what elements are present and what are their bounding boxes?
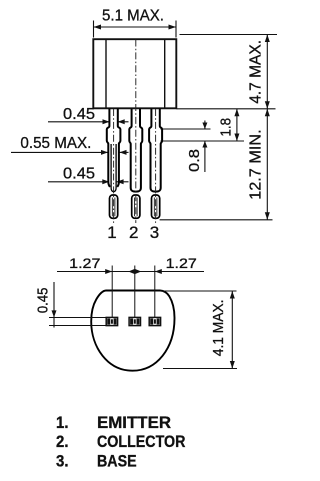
svg-text:0.8: 0.8 bbox=[186, 149, 203, 172]
svg-text:EMITTER: EMITTER bbox=[97, 414, 171, 432]
svg-text:BASE: BASE bbox=[97, 453, 137, 471]
svg-text:4.1 MAX.: 4.1 MAX. bbox=[210, 300, 227, 357]
svg-text:5.1 MAX.: 5.1 MAX. bbox=[102, 8, 164, 25]
svg-text:0.45: 0.45 bbox=[63, 106, 95, 123]
svg-text:1.: 1. bbox=[56, 414, 69, 432]
svg-text:4.7 MAX.: 4.7 MAX. bbox=[248, 40, 265, 104]
svg-text:0.45: 0.45 bbox=[63, 166, 95, 183]
svg-text:COLLECTOR: COLLECTOR bbox=[97, 433, 185, 451]
svg-text:2: 2 bbox=[129, 223, 138, 242]
svg-text:1: 1 bbox=[107, 223, 116, 242]
svg-text:0.45: 0.45 bbox=[36, 288, 52, 314]
svg-text:1.27: 1.27 bbox=[69, 255, 100, 271]
svg-text:1.8: 1.8 bbox=[218, 118, 235, 137]
svg-text:3.: 3. bbox=[56, 453, 69, 471]
svg-text:0.55 MAX.: 0.55 MAX. bbox=[20, 135, 91, 152]
svg-text:12.7 MIN.: 12.7 MIN. bbox=[248, 129, 265, 199]
svg-text:3: 3 bbox=[150, 223, 159, 242]
svg-text:2.: 2. bbox=[56, 433, 69, 451]
svg-text:1.27: 1.27 bbox=[166, 255, 197, 271]
